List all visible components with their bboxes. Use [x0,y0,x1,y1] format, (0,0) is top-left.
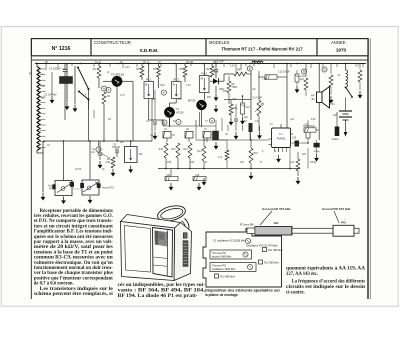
resistor extra e3 [304,78,308,96]
wire T1 collector [103,81,133,141]
svg-text:+C13: +C13 [300,76,306,78]
svg-text:Trimmer PO: Trimmer PO [212,251,226,255]
node A circled [96,147,101,152]
pcb board outline [203,229,282,288]
svg-text:N: N [103,87,105,91]
tuning bus wire [43,140,152,142]
header cell modeles [209,40,303,51]
resistor R15 [249,140,268,169]
marker FL2 455 [259,260,280,265]
svg-text:B: B [303,70,305,74]
caption disposition [205,289,281,298]
svg-text:2x270: 2x270 [75,169,82,171]
svg-text:1nF: 1nF [91,152,96,154]
wire vertical x287 [286,64,288,129]
svg-text:GO: GO [41,86,45,88]
svg-text:R6 8k2: R6 8k2 [186,62,194,64]
schematic frame top edge [31,59,368,61]
CV1 side tabs [52,182,74,190]
svg-text:7,5Ω: 7,5Ω [262,79,267,81]
svg-text:0,5A: 0,5A [330,103,335,106]
svg-text:R1 2k: R1 2k [95,62,102,64]
header cell constructeur [94,40,159,53]
svg-text:circuits est indiquée sur le d: circuits est indiquée sur le dessin [286,285,365,290]
ground CV2 [88,196,92,203]
svg-text:R13: R13 [183,149,188,151]
IC U1 TAA611 amplifier [269,124,294,152]
svg-text:6V: 6V [173,121,176,123]
svg-text:PO sens RM: PO sens RM [240,224,254,227]
svg-text:2µF: 2µF [300,79,305,81]
wire T2 collector [170,99,177,128]
wire density extras [36,63,363,144]
ground Ce [98,161,102,168]
capacitor C15 100uF [258,70,290,79]
svg-text:127, AA 143 etc.: 127, AA 143 etc. [286,272,318,277]
capacitor C13 2uF [295,70,306,85]
wire FL1 down [149,99,164,142]
CV2 side tabs [80,183,100,188]
resistor R18 below IC [296,152,300,176]
switch interrupteur [345,87,353,108]
resistor R5 [136,64,143,81]
svg-text:C18: C18 [195,175,200,177]
ground x67 [65,103,69,110]
svg-text:cés ou indisponibles, par les: cés ou indisponibles, par les types sui- [118,283,206,288]
svg-text:470µF: 470µF [313,151,320,153]
svg-text:5,6k: 5,6k [105,161,110,164]
svg-text:R17: R17 [355,66,360,68]
test point e [209,118,214,123]
svg-text:R13: R13 [190,162,195,164]
capacitor C20 electrolytic [304,120,310,143]
svg-text:PO: PO [49,188,53,191]
svg-text:6,8V: 6,8V [311,119,316,121]
left column rule [30,39,32,300]
marker FL1 455 [263,248,284,253]
test point d [106,87,111,92]
test point c [176,119,181,124]
svg-text:0,2V: 0,2V [125,67,130,69]
svg-text:schéma peuvent être remplacés,: schéma peuvent être remplacés, si [34,292,114,297]
svg-text:R15: R15 [254,153,259,155]
resistor lower e6 [225,150,229,160]
node B circled left [247,66,252,71]
ground R18 [296,177,300,184]
svg-text:C17: C17 [243,121,248,123]
ground C18 [197,183,201,190]
svg-text:C19: C19 [295,144,300,146]
ground L5 [129,166,133,173]
ground pot output [258,126,262,139]
wire af feed [224,71,251,120]
svg-text:1970: 1970 [336,47,347,52]
svg-text:FL2 455 kHz: FL2 455 kHz [264,261,279,265]
svg-text:GO: GO [274,221,279,225]
svg-text:Oscillateur PO.GO 574 kHz: Oscillateur PO.GO 574 kHz [246,243,278,247]
wire speaker bottom [318,103,320,141]
ground lower e8 [214,142,218,149]
pointer accord PO [334,211,339,223]
value labels texture [41,62,360,171]
svg-text:PO: PO [341,221,346,225]
capacitor Ce 1nF [91,141,102,160]
resistor R2 [102,92,111,141]
svg-text:Accord PO 574 kHz: Accord PO 574 kHz [322,207,351,211]
resistor R6 [179,64,186,83]
resistor extra e4 [329,75,333,95]
svg-text:C14: C14 [255,121,260,123]
resistor R12 [171,143,180,158]
test point a [162,120,167,125]
mid bus wire [158,158,300,169]
svg-text:TAA611: TAA611 [277,137,287,141]
capacitor extra e1 [153,122,157,131]
ground lower e7 [249,172,253,179]
svg-text:FL3 455 kHz: FL3 455 kHz [220,275,235,279]
svg-text:oscillateur 1629 kHz: oscillateur 1629 kHz [212,267,236,271]
svg-text:B: B [323,68,325,72]
marker FL3 455 [215,274,236,279]
trimmer PO accord box [210,250,252,259]
svg-text:1,4V: 1,4V [186,85,191,87]
svg-text:BF 194. La diode 46 P1 est pra: BF 194. La diode 46 P1 est prati- [118,294,199,299]
svg-text:0,9V: 0,9V [160,85,165,87]
capacitor C7 electrolytic [203,129,211,142]
svg-text:BF225: BF225 [188,99,196,103]
svg-text:HP: HP [311,94,315,98]
ground R11 [229,118,233,125]
test point B right [322,67,327,72]
capacitor C2 2200pF [49,64,67,77]
transistor T2 AF126 [164,107,184,118]
resistor R16 [159,143,168,158]
switch S1 gammes upper [77,67,90,91]
svg-text:C14 CAP: C14 CAP [253,97,263,100]
resistor extra e5 [358,70,362,90]
ground C13 [295,86,299,93]
resistor R7 [153,64,160,89]
text column left [34,209,114,297]
svg-text:AF126: AF126 [176,111,184,115]
capacitor C3 block [60,77,73,84]
IF transformer FL2 [172,64,182,99]
svg-text:BAL_SOR: BAL_SOR [252,60,263,63]
svg-text:R16: R16 [159,149,164,151]
variable capacitor CV2 accord PO [82,141,114,195]
header table frame [31,39,368,56]
capacitor C9 block [213,131,219,140]
svg-text:OM: OM [139,153,143,156]
ground e5 [358,91,362,98]
ground mid bus right [202,178,206,185]
svg-text:ANNEE: ANNEE [331,40,346,45]
radio cabinet drawing [121,203,192,280]
wire grid misc [89,64,332,141]
svg-text:1,5V: 1,5V [232,99,237,101]
ground C12 [241,114,245,124]
ground input branch [50,96,54,103]
label oscillateur PO GO [246,243,278,247]
ground diode [214,86,218,101]
svg-text:C15 100µF: C15 100µF [278,70,290,73]
capacitor C4 electrolytic [163,129,171,142]
svg-text:R5 1k: R5 1k [143,62,150,64]
capacitor C19 block [291,138,309,147]
resistor R8 horizontal [234,69,251,76]
svg-text:R14: R14 [197,151,202,153]
svg-text:CV: CV [47,145,51,147]
svg-text:la platine de montage.: la platine de montage. [205,293,239,297]
svg-text:quement équivalents à AA 119,: quement équivalents à AA 119, AA [286,267,366,272]
svg-text:2µF: 2µF [244,117,249,119]
label C1 oscillateur GO [213,239,246,243]
svg-text:0,7V: 0,7V [120,95,125,97]
antenna coil L ferrite [37,64,46,154]
ground e2 [234,132,238,139]
wire vertical x287 lower [286,78,288,80]
svg-text:C.I.: C.I. [279,132,283,136]
wire branch x67 [66,64,68,103]
capacitor C6 electrolytic [185,129,193,142]
svg-text:R16: R16 [167,162,172,164]
fuse thermistor [332,112,339,141]
node N circled [101,86,106,91]
svg-text:7V: 7V [205,121,208,123]
capacitor extra e2 [234,119,238,131]
svg-text:vants : BF 364, BF 494, BF 184: vants : BF 364, BF 494, BF 184, [118,288,206,293]
svg-text:C10 100µF: C10 100µF [303,125,315,128]
IF transformer FL1 [144,64,154,99]
capacitor C16 47uF [165,169,178,181]
ground x75 [73,105,77,112]
wire T1 emitter down [116,87,118,142]
svg-text:C19: C19 [292,138,297,140]
gang link dashed [73,188,81,190]
resistor R9b 750 [227,76,237,104]
svg-text:A: A [97,148,99,152]
resistor R11 10k [229,99,238,118]
wire T3 collector [202,93,205,128]
svg-text:La fréquence d’accord des diff: La fréquence d’accord des différents [292,280,366,285]
wire speaker top [318,64,320,93]
capacitor C17 block [243,121,253,140]
ground IC area [277,155,281,162]
ground antenna branch [41,193,45,200]
ground x216 [214,105,218,112]
wire switch to bus [75,66,89,141]
capacitor C10 100uF [303,125,319,132]
capacitor C12 electrolytic vertical [241,96,251,114]
text column right [286,267,366,296]
svg-text:accord 1400 kHz: accord 1400 kHz [212,255,232,259]
battery 9V [333,108,352,120]
ground C16 [169,183,173,190]
svg-text:C1 oscillateur GO 2(0)5 kHz: C1 oscillateur GO 2(0)5 kHz [213,239,246,243]
wire bus to L5 area [61,141,118,147]
label accord PO [322,207,351,211]
right column rule [368,39,370,300]
ground CV1 [62,197,66,204]
supply bus wire [35,63,366,65]
svg-text:750Ω: 750Ω [232,87,238,89]
screw C1 osc [245,238,250,243]
IF transformer FL3 [200,64,210,93]
switch S1 gammes lower [78,91,90,101]
wire C1 branch [51,72,53,95]
wire C3 down [64,84,66,121]
svg-text:C16: C16 [166,175,171,177]
svg-text:9V: 9V [333,113,336,117]
svg-text:B: B [249,67,251,71]
oscillator coil L5 box [125,140,143,162]
svg-text:Accord GO 574 kHz: Accord GO 574 kHz [262,207,291,211]
test point b [161,90,166,95]
loudspeaker HP [311,87,330,109]
svg-text:46P1: 46P1 [223,91,229,93]
inductor L1 [338,64,348,88]
svg-text:P: P [29,72,31,76]
resistor R9 top [206,64,213,78]
wire left down [42,141,44,193]
transistor T3 BF225 [188,99,207,111]
svg-text:ci-contre.: ci-contre. [286,291,305,296]
svg-text:C1 2200pF: C1 2200pF [44,93,57,97]
svg-text:C12: C12 [246,107,251,109]
capacitor C5 [112,144,120,158]
svg-text:100µF: 100µF [310,162,317,164]
ground C21 [315,154,319,161]
svg-text:Thomson RT 217 - Pathé Marconi: Thomson RT 217 - Pathé Marconi RV 217 [221,47,303,52]
battery arrow to ground [344,120,348,137]
svg-text:N° 1216: N° 1216 [52,46,71,52]
ground e1 [153,132,157,139]
resistor R1 [93,64,101,89]
svg-text:Accord PO: Accord PO [102,187,114,190]
test point B mid [301,69,306,74]
variable capacitor CV1 osc PO [48,141,72,196]
capacitor C18 electrolytic [193,175,206,181]
text under radio [118,283,206,299]
svg-text:FL1 455 kHz: FL1 455 kHz [268,248,283,252]
svg-text:CONSTRUCTEUR: CONSTRUCTEUR [94,40,131,45]
label accord GO [262,207,291,211]
ground R3 [111,169,115,176]
resistor R3 5.6k [105,157,114,168]
wire lower right bus [216,140,308,169]
svg-text:Disposition des éléments ajust: Disposition des éléments ajustables sur [205,289,281,293]
diode D1 46P1 [210,64,234,92]
ground e4 [329,96,333,103]
pointer accord GO [260,211,272,225]
resistor R13 [183,143,192,158]
ferrite rod [247,225,359,236]
capacitor C21 470uF [313,140,320,154]
resistor R14 [197,140,206,169]
svg-text:C2 2200pF: C2 2200pF [49,68,61,71]
svg-text:4Ω: 4Ω [311,97,314,101]
svg-text:Trimmer PO: Trimmer PO [212,264,226,268]
svg-text:R12: R12 [171,149,176,151]
transistor T1 AF126 [111,73,124,87]
svg-text:0,4V: 0,4V [230,66,235,68]
series coil on bus [252,61,263,63]
trimmer PO oscillateur box [210,263,256,272]
svg-text:S.D.R.M.: S.D.R.M. [139,48,158,53]
capacitor C8 [214,60,224,78]
potentiometer P1 volume [253,71,264,126]
svg-text:PO: PO [41,98,45,100]
svg-text:fusible: fusible [332,139,339,141]
header cell annee [331,40,347,52]
svg-text:MODELES: MODELES [209,40,230,45]
